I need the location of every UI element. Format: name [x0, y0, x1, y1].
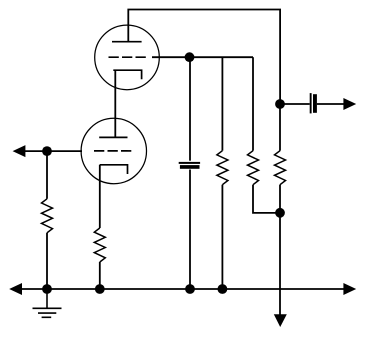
wire: divider node down across bus to supply arrow: [279, 213, 281, 316]
wire: junction down to C1: [189, 57, 191, 161]
capacitor C1 top plate: [179, 162, 200, 164]
node: R3 bus junction: [218, 284, 228, 294]
wire: R3 top lead: [221, 57, 223, 151]
ground symbol: [33, 289, 62, 317]
node: output/plate junction: [275, 99, 285, 109]
resistor R2: [94, 228, 105, 262]
wire: input node down to R1: [46, 151, 48, 199]
wire: V1 grid to divider rail: [152, 56, 253, 58]
node: C1 bus junction: [185, 284, 195, 294]
wire: C1 to ground bus: [189, 170, 191, 290]
capacitor C2 left plate: [310, 93, 312, 113]
arrow: bus right terminal: [343, 283, 356, 295]
node: grid/C1 junction: [185, 52, 195, 62]
ground bus wire: [21, 288, 345, 290]
resistor R5: [275, 151, 286, 185]
wire: input to V2 grid: [25, 150, 83, 152]
node: divider bottom junction: [275, 208, 285, 218]
wire: R5 top lead: [279, 104, 281, 151]
wire: C2 to output arrow: [317, 103, 344, 105]
node: input/grid junction: [42, 146, 52, 156]
wire: R4 top lead: [252, 57, 254, 151]
node: R2 bus junction: [95, 284, 105, 294]
wire: V2 cathode to R2: [99, 165, 101, 228]
node: R1/ground junction: [42, 284, 52, 294]
V2 cathode: [100, 165, 128, 174]
wire: V1 cathode to V2 plate: [114, 70, 116, 137]
arrow: bus left terminal: [9, 283, 22, 295]
wire: R2 to ground bus: [99, 262, 101, 289]
V1 cathode: [113, 70, 141, 79]
triode V2 envelope: [81, 118, 146, 183]
wire: R4 bottom to divider node: [253, 185, 280, 213]
V1 plate: [112, 41, 142, 43]
V2 grid (dashed): [94, 150, 132, 152]
arrow: negative supply (down): [274, 314, 287, 327]
capacitor C1 bottom plate: [180, 165, 200, 169]
V2 plate: [99, 136, 127, 138]
wire: R1 to ground bus: [46, 233, 48, 289]
resistor R4: [248, 151, 259, 185]
arrow: input terminal: [13, 145, 26, 157]
wire: R5 bottom lead: [279, 185, 281, 213]
resistor R3: [217, 151, 228, 185]
triode V1 envelope: [95, 25, 160, 90]
wire: R3 to ground bus: [221, 185, 223, 289]
capacitor C2 right plate: [313, 94, 317, 113]
wire: output node to C2: [280, 103, 310, 105]
V1 grid (dashed): [109, 56, 147, 58]
arrow: output terminal: [343, 98, 356, 110]
resistor R1: [42, 199, 53, 233]
wire: V1 plate lead to B+ top rail down to output node: [128, 10, 280, 105]
